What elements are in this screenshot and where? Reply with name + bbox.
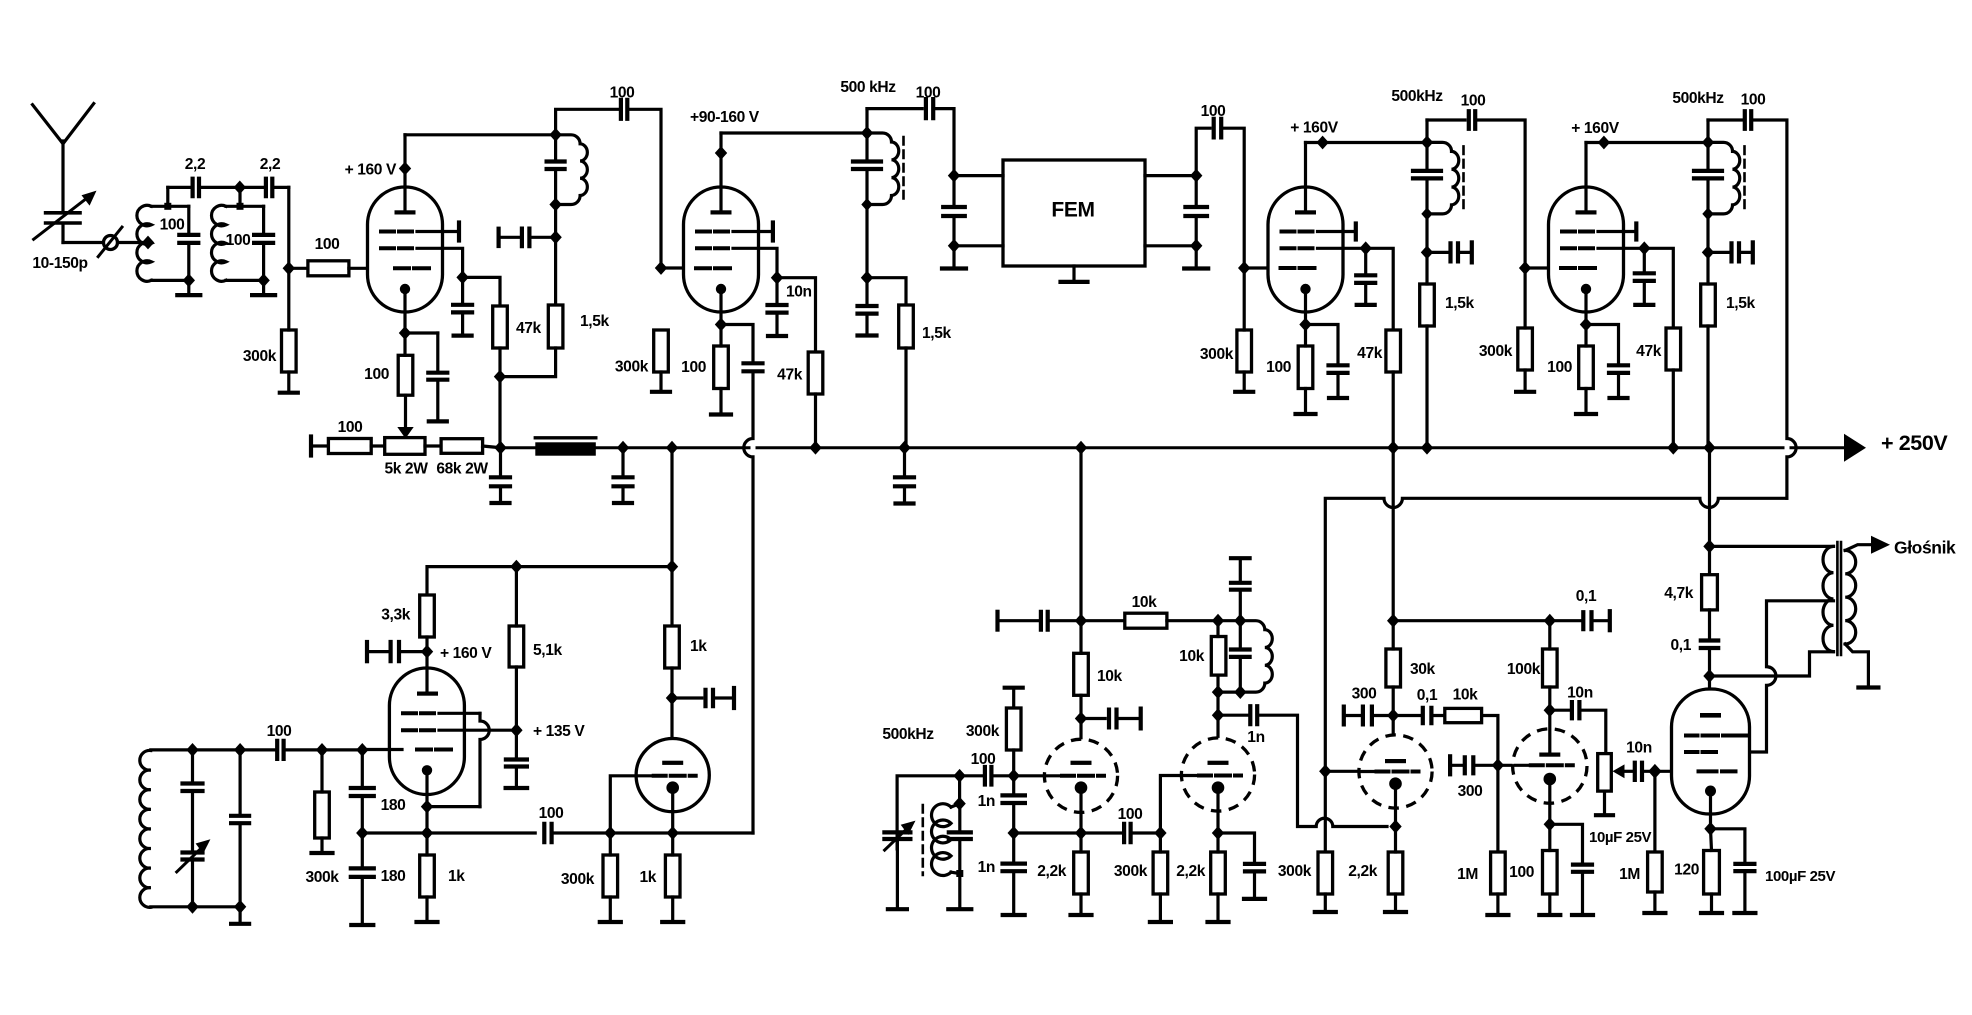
wire FEM out cap lead (1195, 176, 1198, 207)
node rail junction 1 (494, 441, 506, 455)
node OSC IFT (500 kHz) top (861, 126, 873, 140)
wire to V3 grid (1244, 266, 1268, 269)
tube V9 (AF preamplifier) (1359, 735, 1432, 808)
capacitor 180 upper (351, 788, 374, 796)
resistor 47k (V2 screen) (808, 352, 823, 394)
wire V2 cathode lead (719, 289, 722, 325)
inductor L3 (oscillator coil) (140, 750, 151, 907)
wire V6 plate lead (670, 698, 673, 763)
tube V1 (RF amplifier) (368, 187, 443, 312)
node V4 cathode junction (1580, 318, 1592, 332)
node IFT3 trimmer junction (1702, 246, 1714, 260)
tube V11 (audio output pentode) (1672, 689, 1750, 814)
svg-text:10k: 10k (1132, 594, 1158, 611)
node V3 grid junction (1238, 261, 1250, 275)
terminal bar chain input (309, 437, 313, 456)
wire V1 anode riser (403, 135, 406, 187)
svg-text:47k: 47k (1357, 345, 1383, 362)
ground V4 cathode cap (1617, 373, 1620, 398)
wire coupling cap to V2 grid (627, 109, 661, 268)
wire connector to coil L1 tap (118, 241, 149, 244)
capacitor V1 screen bypass (453, 305, 472, 313)
wire to 10n (775, 278, 778, 305)
svg-text:100: 100 (610, 85, 636, 102)
svg-text:68k 2W: 68k 2W (436, 461, 488, 478)
V7 cathode (1075, 781, 1088, 794)
capacitor C2 2,2 (193, 179, 199, 197)
wire FEM out up to coupling cap (1196, 128, 1210, 175)
wire pot to 68k (425, 444, 441, 447)
resistor 10k (V7 plate) (1074, 653, 1089, 695)
svg-text:300k: 300k (1114, 863, 1148, 880)
wire V4 cathode to cap (1586, 325, 1619, 366)
resistor 1M (V11 grid) (1648, 852, 1663, 892)
inductor IFT3 (500kHz) winding (1708, 142, 1740, 213)
node det tank top left (1212, 614, 1224, 628)
ground volume pot (1603, 791, 1606, 815)
node V3 cathode junction (1299, 318, 1311, 332)
ground V1 cathode cap (436, 380, 439, 422)
node V10 cathode junction (1544, 817, 1556, 831)
wire UL tap: screen grid to primary tap, hopping plate wire (1750, 601, 1834, 752)
wire tank1 to C2 (168, 186, 193, 189)
node IFT2 trimmer junction (1421, 246, 1433, 260)
resistor 2,2k (V9 cathode) (1388, 852, 1403, 894)
ground 1M V10 (1496, 894, 1499, 915)
dashed core line ift3 (1743, 146, 1746, 211)
wire cap to FEM input (933, 109, 954, 176)
V8 cathode (1212, 781, 1225, 794)
block FEM (mechanical filter) (1003, 160, 1145, 266)
svg-text:4,7k: 4,7k (1664, 585, 1693, 602)
svg-text:2,2k: 2,2k (1037, 863, 1066, 880)
tube V7 (BFO/product detector) (1044, 739, 1117, 812)
node V10 grid junction (1492, 758, 1504, 772)
wire IFT3 cap to detector line, hopping over B+ rail (1751, 120, 1796, 498)
capacitor C3 2,2 (266, 179, 272, 197)
inductor BFO coil (951, 804, 960, 807)
resistor 120 (V11 cathode) (1704, 851, 1720, 895)
wire 1,5k to 47k node (500, 348, 556, 377)
node rail junction 7 (V3 47k / V7 feed) (1387, 441, 1399, 455)
V4 cathode (1581, 284, 1591, 294)
capacitor rail bypass 2 (614, 477, 633, 486)
capacitor 0,1 (snubber) (1701, 641, 1718, 649)
wire V3 screen out (1318, 247, 1366, 250)
svg-text:+ 250V: + 250V (1881, 431, 1948, 455)
svg-text:1M: 1M (1457, 866, 1478, 883)
svg-text:100: 100 (1201, 103, 1227, 120)
svg-text:100: 100 (1547, 359, 1573, 376)
inductor det transformer winding (1240, 621, 1272, 692)
inductor OSC IFT (500 kHz) winding (867, 133, 899, 204)
arrow from V1 cathode resistor to potentiometer wiper (404, 395, 407, 429)
ground 180 lower (361, 877, 364, 925)
svg-text:0,1: 0,1 (1671, 637, 1692, 654)
wire V8 plate lead (1216, 715, 1219, 761)
svg-text:10k: 10k (1097, 668, 1123, 685)
wire V7 plate lead (1079, 719, 1082, 761)
wire det tank bottom (1218, 690, 1240, 693)
node FEM out top (1190, 169, 1202, 183)
capacitor V4 cathode bypass (1609, 365, 1628, 373)
node V6 plate junction (666, 691, 678, 705)
wire 100 to V1 grid (349, 267, 369, 270)
V2 cathode (716, 284, 726, 294)
ground 100 V2 (719, 389, 722, 415)
node rail junction 2 (617, 441, 629, 455)
node V2 cathode junction (715, 318, 727, 332)
wire V1 cathode lead (403, 289, 406, 333)
wire IFT1 bottom to 1,5k (554, 205, 557, 306)
wire V7 to V8 coupling line y=833 (1081, 831, 1121, 834)
wire to primary top (1710, 545, 1834, 548)
capacitor det tank (1239, 621, 1242, 650)
node grid trimmer junction (549, 230, 561, 244)
capacitor 180 lower (351, 868, 374, 877)
V5 grid rows (403, 711, 434, 715)
svg-text:+ 160 V: + 160 V (345, 162, 397, 179)
ground 100 V4 (1584, 389, 1587, 415)
tube V10 (AF driver) (1513, 729, 1587, 803)
ground 300k V2 (659, 372, 662, 392)
capacitor V3 cathode bypass (1329, 365, 1348, 373)
node IFT2 (500kHz) bottom (1421, 208, 1432, 221)
node V2 grid junction (655, 261, 667, 275)
svg-text:1k: 1k (639, 869, 656, 886)
resistor 100 (V3 cathode) (1298, 346, 1313, 389)
svg-text:100: 100 (267, 723, 293, 740)
trimmer capacitor at V5 anode (open end) (365, 642, 369, 661)
svg-text:500kHz: 500kHz (1672, 90, 1724, 107)
svg-text:1n: 1n (978, 859, 995, 876)
svg-text:100: 100 (681, 359, 707, 376)
ground 100uF (1743, 871, 1746, 913)
wire fixed cap lead (239, 750, 242, 816)
wire V2 cathode cap down, hopping over B+ rail (744, 371, 753, 833)
wire rail to output feed (1708, 448, 1711, 547)
tube V8 (AGC amp/detector) (1181, 738, 1254, 811)
svg-text:500 kHz: 500 kHz (840, 79, 896, 96)
V9 grid dashes (1377, 770, 1419, 774)
node OSC IFT (500 kHz) bottom (861, 198, 872, 211)
node V8 plate junction (1212, 708, 1224, 722)
wire to 4,7k (1708, 546, 1711, 574)
node rail junction 6 (detector feed) (1075, 441, 1087, 455)
wire 47k to node (498, 348, 501, 377)
svg-text:+90-160 V: +90-160 V (690, 109, 760, 126)
wire to V2 grid (661, 266, 685, 269)
node 47k/1,5k junction (494, 370, 506, 384)
node FEM in top (948, 169, 960, 183)
resistor 1,5k (IFT1) (548, 305, 563, 348)
V7 grid dashes (1062, 774, 1104, 778)
wire IFT3 top to cap (1708, 118, 1742, 121)
capacitor V2 cathode coupling (744, 363, 763, 371)
ground 2,2k V9 (1394, 894, 1397, 912)
capacitor 300 at V9 plate (open end left) (1342, 707, 1346, 725)
node rail junction 3 (oscillator feed) (666, 441, 678, 455)
node BFO top junction (953, 769, 965, 783)
wire V11 cathode to 100uF (1711, 829, 1745, 864)
ground FEM case (1072, 266, 1075, 282)
trimmer capacitor at V6 plate (open end) (672, 696, 702, 699)
capacitor 300 at V10 grid (open end left) (1448, 756, 1452, 774)
ground 10uF (1581, 872, 1584, 915)
resistor 10k (det tank) (1211, 637, 1226, 676)
wire screen node to 47k (463, 277, 500, 306)
wire C1 bottom lead (187, 243, 190, 281)
wire to V10 grid (1498, 764, 1515, 767)
inductor IFT1 winding (556, 135, 588, 205)
svg-text:180: 180 (381, 868, 407, 885)
wire C1 top lead (187, 206, 190, 235)
wire screen to 47k V3 (1366, 248, 1394, 330)
svg-text:FEM: FEM (1051, 199, 1094, 222)
wire 1,5k osc to rail (904, 348, 907, 448)
tube V3 (IF amplifier 1) (1268, 187, 1343, 312)
svg-text:10n: 10n (1567, 685, 1593, 702)
wire V8 grid out (1160, 776, 1196, 834)
tube V2 (mixer/IF) (684, 187, 759, 312)
node IFT1 top (549, 128, 561, 142)
wire tank2 to C3 (240, 186, 266, 189)
wiper arrow volume pot (1613, 764, 1625, 778)
node +160V V1 (399, 162, 411, 176)
antenna connector (circle with slash) (104, 236, 118, 250)
resistor 5,1k (osc screen) (509, 626, 524, 667)
resistor 100 (chain) (328, 439, 371, 454)
svg-text:3,3k: 3,3k (381, 607, 410, 624)
svg-text:100k: 100k (1507, 661, 1541, 678)
svg-text:+ 160V: + 160V (1290, 120, 1338, 137)
capacitor V3 screen bypass (1356, 275, 1375, 283)
wire V10 grid to 1M (1496, 765, 1499, 852)
resistor 47k (V1 screen) (493, 306, 508, 348)
inductor output transformer primary (1823, 546, 1834, 651)
iron-core choke on rail (535, 436, 596, 439)
inductor L1 (antenna tank coil) (137, 205, 152, 281)
node between 180 caps (356, 826, 368, 840)
node IFT3 (500kHz) bottom (1702, 208, 1713, 221)
wire osc supply line (427, 567, 672, 595)
wire 180 node to V5 cathode node (362, 831, 427, 834)
resistor 30k (V9 plate) (1386, 649, 1401, 687)
terminal bar det line (open) (995, 612, 999, 630)
wire detector line from IFT3 to AF section, hopping feed wires (1325, 498, 1787, 771)
resistor 100 (V2 cathode) (714, 346, 729, 389)
ground secondary (1858, 685, 1878, 689)
wire 1n to V9 cathode line, hopping AGC wire (1257, 715, 1387, 826)
resistor 3,3k (osc anode) (420, 595, 435, 637)
wire osc tank bottom (151, 905, 240, 908)
svg-text:0,1: 0,1 (1576, 588, 1597, 605)
V8 grid dashes (1199, 774, 1241, 778)
ground 1n lower (1012, 871, 1015, 915)
V1 anode (395, 210, 416, 214)
wire C4 bottom lead (262, 243, 265, 281)
inductor IFT2 (500kHz) winding (1427, 142, 1459, 213)
wire L1 top (151, 205, 167, 208)
ground V4 screen cap (1643, 281, 1646, 305)
V11 anode (1700, 713, 1721, 718)
svg-text:10k: 10k (1179, 648, 1205, 665)
wire screen to 47k V4 (1644, 248, 1673, 328)
node AGC junction (1319, 764, 1331, 778)
ground rail cap 2 (621, 486, 624, 503)
tube V4 (IF amplifier 2) (1549, 187, 1624, 312)
resistor 2,2k (V7 cathode) (1074, 852, 1089, 894)
V5 cathode (422, 765, 432, 775)
wire C3 to grid node (272, 186, 289, 189)
resistor 300k (V2 grid leak) (654, 330, 669, 372)
wire to antenna connector (63, 241, 104, 244)
resistor 1k (V5 cathode) (420, 855, 435, 897)
node rail junction 5 (osc 1,5k) (898, 441, 910, 455)
wire V3 g-row1 to terminal (1318, 230, 1356, 233)
wire C2 to tank2 (199, 186, 240, 189)
wire BFO tank to cap (960, 774, 982, 777)
ground 300k V3 (1243, 372, 1246, 392)
capacitor BFO tank (958, 804, 961, 833)
core output transformer (1837, 542, 1841, 655)
node V4 screen junction (1638, 241, 1650, 255)
wire C4 top lead (262, 206, 265, 235)
IFT2 (500kHz) tuning capacitor (1425, 142, 1428, 171)
wire IFT2 top to cap (1427, 118, 1465, 121)
wire V3 anode to IFT2 (1306, 141, 1428, 144)
tube V5 (oscillator) (389, 668, 464, 795)
V6 plate bar (662, 761, 683, 765)
wire node to 100 (289, 267, 308, 270)
ground 1k V6 (671, 897, 674, 922)
svg-text:2,2: 2,2 (260, 156, 281, 173)
V10 cathode (1544, 773, 1557, 786)
svg-text:47k: 47k (516, 320, 542, 337)
trimmer capacitor at V1 grid tank (open end) (497, 229, 501, 246)
wire IFT2 bottom down (1425, 214, 1428, 252)
dashed core line BFO (921, 805, 924, 875)
wire AGC to V9 grid (1325, 770, 1360, 773)
resistor 68k 2W (441, 439, 483, 454)
wire cap to grid nodes (284, 748, 322, 751)
wire cap to V3 grid node (1221, 128, 1244, 268)
wire IFT3 bottom down (1706, 214, 1709, 252)
wire FEM in top stub (954, 174, 1003, 177)
wire detector top line y=620.7 (998, 619, 1041, 622)
wire 47k V2 to rail (814, 394, 817, 448)
node osc grid junction (356, 743, 368, 757)
svg-text:2,2k: 2,2k (1348, 863, 1377, 880)
wire +135V cap lead (515, 730, 518, 759)
node rail junction 4 (V2 47k) (809, 441, 821, 455)
capacitor osc padder (183, 784, 203, 792)
svg-text:10k: 10k (1453, 687, 1479, 704)
node +160V V4 (1598, 136, 1610, 150)
node IFT3 (500kHz) top (1702, 136, 1714, 150)
svg-text:300k: 300k (243, 348, 277, 365)
capacitor V8 cathode bypass (1245, 864, 1264, 872)
node tank2 top (237, 203, 244, 210)
resistor 100 (V4 cathode) (1579, 346, 1594, 389)
ground FEM output (1195, 246, 1198, 269)
wire V5 g1 tie to cathode, hopping screen line (480, 713, 489, 806)
svg-text:1n: 1n (1247, 729, 1264, 746)
node 5,1k top (510, 560, 522, 574)
wire V4 screen out (1598, 247, 1644, 250)
V2 grid rows (697, 230, 728, 234)
resistor 10k (AF coupling) (1445, 708, 1482, 722)
V5 anode (417, 692, 438, 696)
node V11 grid junction (1648, 764, 1661, 779)
svg-text:100: 100 (364, 366, 390, 383)
capacitor V1 cathode bypass (428, 373, 447, 380)
ground tank2 (262, 280, 265, 295)
ground 2,2k V8 (1216, 894, 1219, 922)
svg-text:100: 100 (1118, 806, 1144, 823)
node L1 tap junction (142, 236, 154, 250)
wire V1 screen to node (417, 248, 463, 277)
ground 120 (1710, 894, 1713, 913)
wire V6 to V2-cathode line (673, 831, 753, 834)
ground tank1 (187, 280, 190, 295)
resistor 4,7k (snubber) (1702, 575, 1718, 610)
node +160V V5 (421, 645, 433, 659)
resistor 300k (AGC feed, open top) (1005, 686, 1023, 690)
wire V5 screen to +135V (439, 729, 516, 732)
V1 cathode (400, 284, 410, 294)
svg-text:47k: 47k (777, 367, 803, 384)
ground rail cap 3 (903, 486, 906, 503)
ground 300k V4 (1523, 370, 1526, 392)
wire V5 control grid to tank (362, 748, 402, 751)
node output transformer B+ (1703, 540, 1715, 554)
tube V6 (detector/mixer diode) (636, 739, 709, 812)
node tank bottom right (234, 900, 246, 914)
wire to V4 grid (1525, 266, 1548, 269)
wire 1n chain (1012, 776, 1015, 796)
resistor 1k (V6 plate) (665, 626, 680, 668)
svg-text:300k: 300k (1479, 343, 1513, 360)
wire 1,5k IFT2 to rail (1425, 326, 1428, 448)
wire FEM out top stub (1145, 174, 1196, 177)
svg-text:120: 120 (1674, 862, 1700, 879)
svg-text:1,5k: 1,5k (580, 313, 609, 330)
wire V5 g1 row out (439, 712, 480, 715)
node IFT1 bottom (549, 198, 561, 212)
svg-text:1,5k: 1,5k (1726, 295, 1755, 312)
node V7 grid junction (1008, 769, 1020, 783)
svg-text:+ 135 V: + 135 V (533, 723, 585, 740)
resistor 1,5k (IFT2) (1420, 284, 1435, 326)
svg-text:500kHz: 500kHz (882, 726, 934, 743)
ground 100 V10 (1548, 894, 1551, 915)
svg-text:500kHz: 500kHz (1391, 88, 1443, 105)
node V8 grid lower junction (1154, 826, 1166, 840)
node tank2 top wire (234, 181, 246, 195)
capacitor rail bypass 3 (895, 477, 914, 486)
capacitor 100 (BFO coupling) (985, 767, 992, 785)
node osc feed junction (666, 560, 678, 574)
node V11 plate junction (1703, 669, 1715, 683)
svg-text:5,1k: 5,1k (533, 642, 562, 659)
node V9 plate junction (1387, 709, 1399, 723)
node FEM out bottom (1190, 239, 1202, 253)
svg-text:100: 100 (338, 419, 364, 436)
wire OSC IFT bottom down (865, 205, 868, 278)
wire cathode down (425, 807, 428, 833)
wire L1 bottom (151, 279, 188, 282)
